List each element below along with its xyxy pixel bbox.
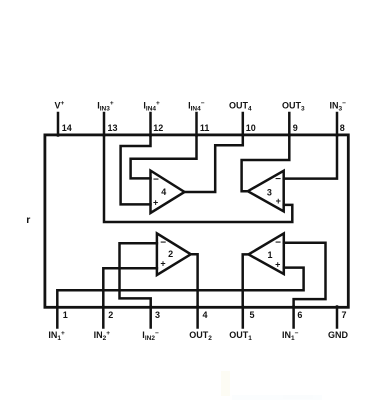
- svg-text:12: 12: [153, 123, 163, 133]
- svg-text:GND: GND: [328, 330, 349, 340]
- pin 11 stub: [195, 113, 198, 136]
- pin 14 stub: [57, 113, 60, 136]
- svg-text:IN1+: IN1+: [48, 330, 65, 342]
- svg-text:OUT2: OUT2: [189, 330, 212, 342]
- svg-text:7: 7: [342, 310, 347, 320]
- pin 5 stub: [242, 307, 245, 328]
- svg-text:−: −: [275, 174, 281, 185]
- svg-text:11: 11: [200, 123, 210, 133]
- svg-text:IN3−: IN3−: [330, 100, 347, 112]
- wire pin 8 to op-amp 3 - input: [284, 135, 337, 179]
- pin 13 stub: [103, 113, 106, 136]
- pin 4 stub: [196, 307, 199, 328]
- svg-text:+: +: [153, 197, 158, 207]
- pin 1 stub: [56, 307, 59, 328]
- svg-text:r: r: [26, 214, 30, 226]
- pin 3 stub: [149, 307, 152, 328]
- svg-text:IIN3+: IIN3+: [97, 100, 114, 112]
- pin 7 stub: [336, 307, 339, 328]
- svg-text:−: −: [275, 238, 281, 249]
- svg-text:OUT1: OUT1: [229, 330, 252, 342]
- svg-text:IIN4−: IIN4−: [188, 100, 205, 112]
- svg-text:14: 14: [62, 123, 72, 133]
- pin 8 stub: [336, 113, 339, 136]
- pin 2 stub: [102, 307, 105, 328]
- wire pin 11 to op-amp 4 - input: [131, 136, 197, 179]
- svg-text:−: −: [153, 175, 159, 186]
- svg-text:10: 10: [246, 123, 256, 133]
- svg-text:1: 1: [63, 310, 68, 320]
- wire pin 4 to op-amp 2 output: [191, 254, 198, 307]
- faint watermark smudge vertical: [221, 371, 230, 396]
- svg-text:13: 13: [108, 123, 118, 133]
- pin 12 stub: [149, 113, 152, 136]
- IC package outline: [45, 135, 348, 307]
- wire pin 12 to op-amp 4 + input: [121, 136, 151, 205]
- faint watermark smudge horizontal: [232, 395, 322, 400]
- svg-text:9: 9: [293, 123, 298, 133]
- op-amp 1: [249, 233, 284, 274]
- svg-text:−: −: [160, 238, 166, 249]
- svg-text:IIN2−: IIN2−: [142, 330, 159, 342]
- svg-text:OUT4: OUT4: [229, 100, 252, 112]
- wire pin 5 to op-amp 1 output: [243, 254, 249, 307]
- svg-text:+: +: [160, 258, 165, 268]
- pin 9 stub: [288, 113, 291, 136]
- wire pin 9 to op-amp 3 output: [242, 136, 290, 192]
- wire pin 2 to op-amp 2 + input: [103, 268, 157, 307]
- svg-text:3: 3: [155, 310, 160, 320]
- svg-text:+: +: [276, 196, 281, 206]
- svg-text:6: 6: [297, 310, 302, 320]
- svg-text:3: 3: [267, 188, 272, 198]
- pin 10 stub: [242, 113, 245, 136]
- pin 6 stub: [292, 307, 295, 328]
- wire pin 1 to op-amp 1 + input: [57, 268, 303, 307]
- wire pin 6 to op-amp 1 - input: [284, 243, 326, 307]
- svg-text:OUT3: OUT3: [282, 100, 305, 112]
- svg-text:8: 8: [340, 123, 345, 133]
- svg-text:5: 5: [250, 310, 255, 320]
- svg-text:2: 2: [108, 310, 113, 320]
- op-amp 3: [248, 171, 284, 212]
- op-amp 2: [157, 233, 191, 275]
- svg-text:1: 1: [267, 250, 272, 260]
- svg-text:IN1−: IN1−: [282, 330, 299, 342]
- svg-text:+: +: [275, 259, 280, 269]
- op-amp 4: [151, 171, 185, 213]
- wire pin 3 to op-amp 2 - input: [120, 243, 157, 307]
- svg-text:4: 4: [203, 310, 208, 320]
- wire pin 10 to op-amp 4 output: [185, 136, 243, 193]
- wire pin 13 to op-amp 3 + input: [104, 136, 292, 223]
- svg-text:IN2+: IN2+: [94, 330, 111, 342]
- svg-text:V+: V+: [55, 100, 65, 110]
- svg-text:4: 4: [161, 187, 166, 197]
- svg-text:IIN4+: IIN4+: [143, 100, 160, 112]
- svg-text:2: 2: [168, 249, 173, 259]
